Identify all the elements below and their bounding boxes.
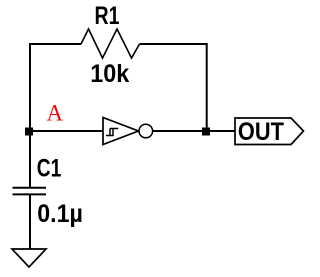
svg-text:A: A (47, 101, 64, 126)
svg-text:R1: R1 (95, 2, 120, 30)
svg-text:OUT: OUT (238, 118, 284, 146)
svg-text:C1: C1 (37, 155, 62, 183)
svg-text:10k: 10k (90, 60, 129, 88)
svg-text:0.1µ: 0.1µ (37, 200, 83, 228)
